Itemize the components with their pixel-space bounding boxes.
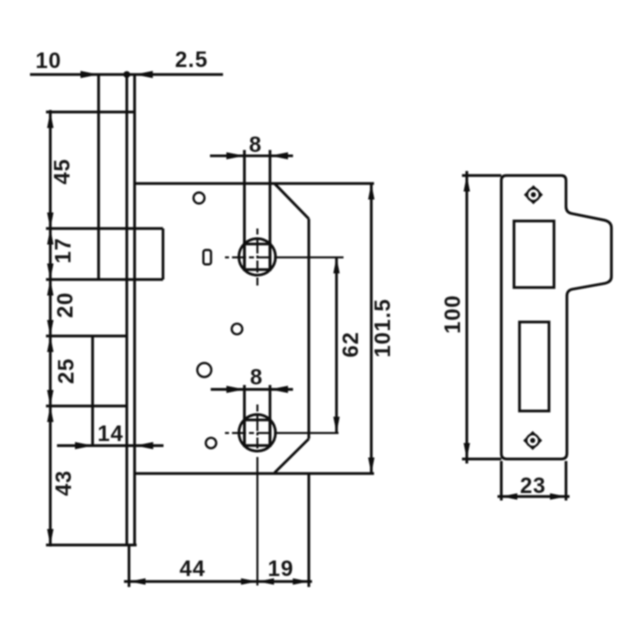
svg-text:101.5: 101.5 <box>370 298 395 357</box>
dim 8 bottom: line <box>211 388 293 391</box>
case bottom edge with 101.5 extension <box>135 472 374 475</box>
upper spindle vertical centerline <box>256 229 258 286</box>
screw hole low <box>206 438 216 448</box>
svg-text:8: 8 <box>250 365 263 390</box>
extension line y=229 (45/17) and hub top <box>46 227 163 230</box>
case right edge <box>307 219 310 439</box>
dim 23 extension lines <box>500 461 503 501</box>
svg-text:43: 43 <box>51 470 76 496</box>
faceplate left edge <box>125 75 128 546</box>
strike lower cutout <box>520 322 550 411</box>
extension line y=279 (17/20) and hub bottom <box>46 278 163 281</box>
svg-text:19: 19 <box>268 556 294 581</box>
bottom right chamfer <box>275 439 309 473</box>
dim 62 line <box>335 257 338 432</box>
strike plate outline with latch lip <box>501 176 611 460</box>
dim 8 bottom extension lines <box>243 385 246 446</box>
dim 101.5 line <box>370 184 373 474</box>
hole large <box>197 363 211 377</box>
svg-text:44: 44 <box>179 556 205 581</box>
case back line lower step <box>91 336 94 446</box>
svg-text:14: 14 <box>97 421 123 446</box>
dim 8 top extension lines <box>243 150 246 270</box>
faceplate right edge <box>133 75 136 546</box>
lower spindle vertical centerline to bottom dims <box>256 405 258 586</box>
extension line y=406 (25/43) <box>46 405 127 408</box>
lock case top edge with 101.5 extension <box>135 182 374 185</box>
strike top screw hole <box>525 186 542 203</box>
hub box right edge <box>162 229 165 280</box>
svg-text:45: 45 <box>50 158 75 184</box>
screw hole middle <box>232 324 243 335</box>
arrow tip left at faceplate right edge (2.5) <box>135 71 153 78</box>
svg-text:8: 8 <box>249 132 262 157</box>
svg-text:2.5: 2.5 <box>175 47 208 72</box>
svg-text:100: 100 <box>440 295 465 334</box>
svg-text:17: 17 <box>51 237 76 263</box>
dim 8 top: line <box>210 154 293 157</box>
svg-text:62: 62 <box>338 331 363 357</box>
svg-text:23: 23 <box>520 473 546 498</box>
extension line y=112 (top of 45) <box>46 111 135 114</box>
top right chamfer <box>275 184 309 219</box>
dim 14 line <box>57 444 164 447</box>
dim 100 line <box>465 171 468 464</box>
arrow tip right at case back line (10) <box>81 71 99 78</box>
extension line y=336 (20/25) <box>46 335 127 338</box>
lower spindle square <box>244 420 270 446</box>
left chain dimension line <box>49 110 52 547</box>
bottom dim extension from case right <box>307 474 310 588</box>
bottom dimension line 44 / 19 <box>124 580 312 583</box>
svg-text:10: 10 <box>35 48 61 73</box>
dim 100 extension lines <box>462 174 501 177</box>
lower spindle horizontal centerline <box>225 432 339 434</box>
dim dot at faceplate left edge <box>123 71 130 78</box>
screw hole top left <box>194 193 205 204</box>
upper spindle horizontal centerline <box>225 256 344 258</box>
strike bottom screw hole <box>524 432 541 449</box>
dim 23 line <box>498 495 570 498</box>
lower spindle circle <box>239 415 276 452</box>
upper spindle square <box>244 244 270 270</box>
chain arrows <box>47 112 53 128</box>
keyhole slot <box>203 250 211 264</box>
extension line y=545 (bottom of 43) and faceplate bottom cap <box>46 544 137 547</box>
upper spindle circle <box>239 239 276 276</box>
bottom dim extension from faceplate <box>128 545 131 587</box>
case back line upper <box>97 75 100 280</box>
svg-text:20: 20 <box>53 292 78 318</box>
top dimension line for 10 and 2.5 <box>30 73 223 76</box>
strike upper cutout <box>514 221 554 288</box>
svg-text:25: 25 <box>54 358 79 384</box>
